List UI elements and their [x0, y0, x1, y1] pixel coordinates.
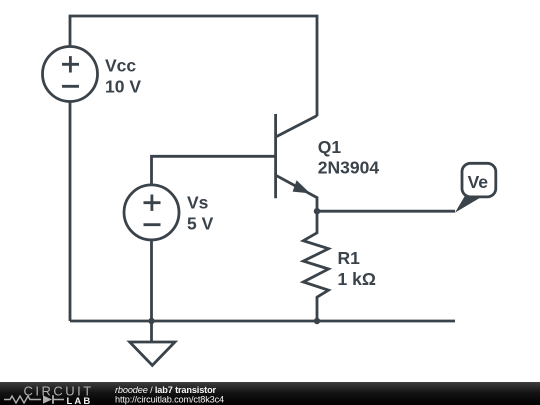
svg-text:LAB: LAB — [67, 396, 93, 405]
net flag Ve tail — [455, 194, 481, 213]
wire: bottom ground rail — [70, 320, 455, 323]
junction: resistor bottom node — [314, 318, 320, 324]
svg-text:5 V: 5 V — [187, 213, 214, 233]
transistor Q1 emitter arrow — [293, 180, 311, 193]
wire: Vs top to base — [152, 156, 276, 185]
wire: Vcc bottom down left rail — [69, 102, 72, 322]
net flag Ve box — [462, 163, 496, 197]
svg-text:R1: R1 — [338, 248, 361, 268]
resistor R1 — [303, 211, 328, 321]
svg-text:http://circuitlab.com/ct8k3c4: http://circuitlab.com/ct8k3c4 — [115, 395, 224, 405]
svg-text:1 kΩ: 1 kΩ — [338, 269, 376, 289]
junction: emitter node — [314, 208, 320, 214]
svg-text:Vcc: Vcc — [105, 56, 136, 76]
svg-text:Vs: Vs — [187, 193, 209, 213]
svg-text:rboodee / lab7 transistor: rboodee / lab7 transistor — [115, 385, 217, 395]
svg-text:Q1: Q1 — [318, 137, 342, 157]
svg-text:Ve: Ve — [468, 172, 489, 192]
junction: ground node — [148, 318, 154, 324]
svg-text:2N3904: 2N3904 — [318, 157, 380, 177]
voltage source Vcc — [43, 47, 98, 102]
wire: Vs bottom to ground rail — [150, 240, 153, 321]
svg-text:10 V: 10 V — [105, 77, 141, 97]
wire: top rail Vcc top to collector — [70, 16, 317, 116]
voltage source Vs — [124, 185, 179, 240]
transistor Q1 — [276, 114, 317, 211]
ground — [130, 321, 175, 365]
logo squiggle resistor-diode — [4, 395, 64, 404]
wire: emitter node to Ve flag — [317, 210, 455, 213]
footer bar — [0, 382, 540, 405]
